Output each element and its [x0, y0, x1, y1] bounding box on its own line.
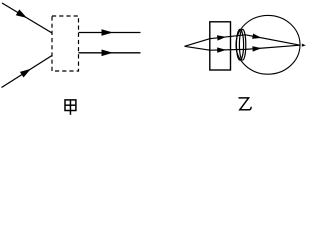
wire: incoming top ray — [2, 3, 52, 33]
wire: outgoing bottom ray — [79, 52, 141, 54]
arrowhead on incoming bottom ray — [20, 69, 31, 78]
wire: outgoing top ray — [79, 32, 141, 34]
wire: upper ray from object point — [185, 35, 301, 47]
wire: incoming bottom ray — [2, 56, 53, 88]
arrowhead upper ray in eye — [252, 34, 261, 39]
eye lens ellipse left — [236, 29, 243, 60]
eye lens ellipse right — [239, 29, 245, 60]
label jia (Chinese char drawn) — [65, 100, 76, 115]
arrowhead upper ray in lens box — [217, 35, 226, 40]
eyeball — [236, 15, 300, 74]
small arrow at retina focus point — [302, 44, 306, 47]
wire: lower ray from object point — [185, 45, 301, 50]
arrowhead lower ray in eye — [252, 46, 261, 51]
label yi (Chinese char drawn) — [239, 98, 252, 110]
dashed box (diagram jia) — [52, 16, 79, 71]
arrowhead on incoming top ray — [16, 9, 27, 18]
correcting lens rectangle (diagram yi) — [210, 22, 231, 70]
arrowhead lower ray in lens box — [217, 47, 226, 52]
arrowhead on outgoing bottom ray — [102, 50, 114, 57]
arrowhead on outgoing top ray — [102, 29, 114, 36]
